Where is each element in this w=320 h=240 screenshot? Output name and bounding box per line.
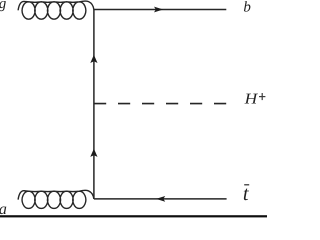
svg-text:b: b [243,0,251,16]
svg-text:t: t [243,183,250,205]
wire: tbar quark line (bottom outgoing) [94,198,227,200]
horizontal rule at bottom of figure [0,215,267,217]
wire: internal quark propagator (vertical) [93,10,95,199]
arrow on tbar line (points left) [156,196,165,202]
gluon g1 (top incoming gluon) [18,1,94,19]
svg-text:g: g [0,0,7,12]
svg-text:H: H [243,91,258,107]
arrow up (lower segment) [90,149,97,157]
gluon g2 (bottom incoming gluon) [18,190,94,208]
arrow on b line (points right) [154,7,163,13]
arrow up (upper segment) [90,55,97,63]
wire: b quark line (top outgoing) [94,9,226,11]
dashed H+ propagator [94,103,226,105]
